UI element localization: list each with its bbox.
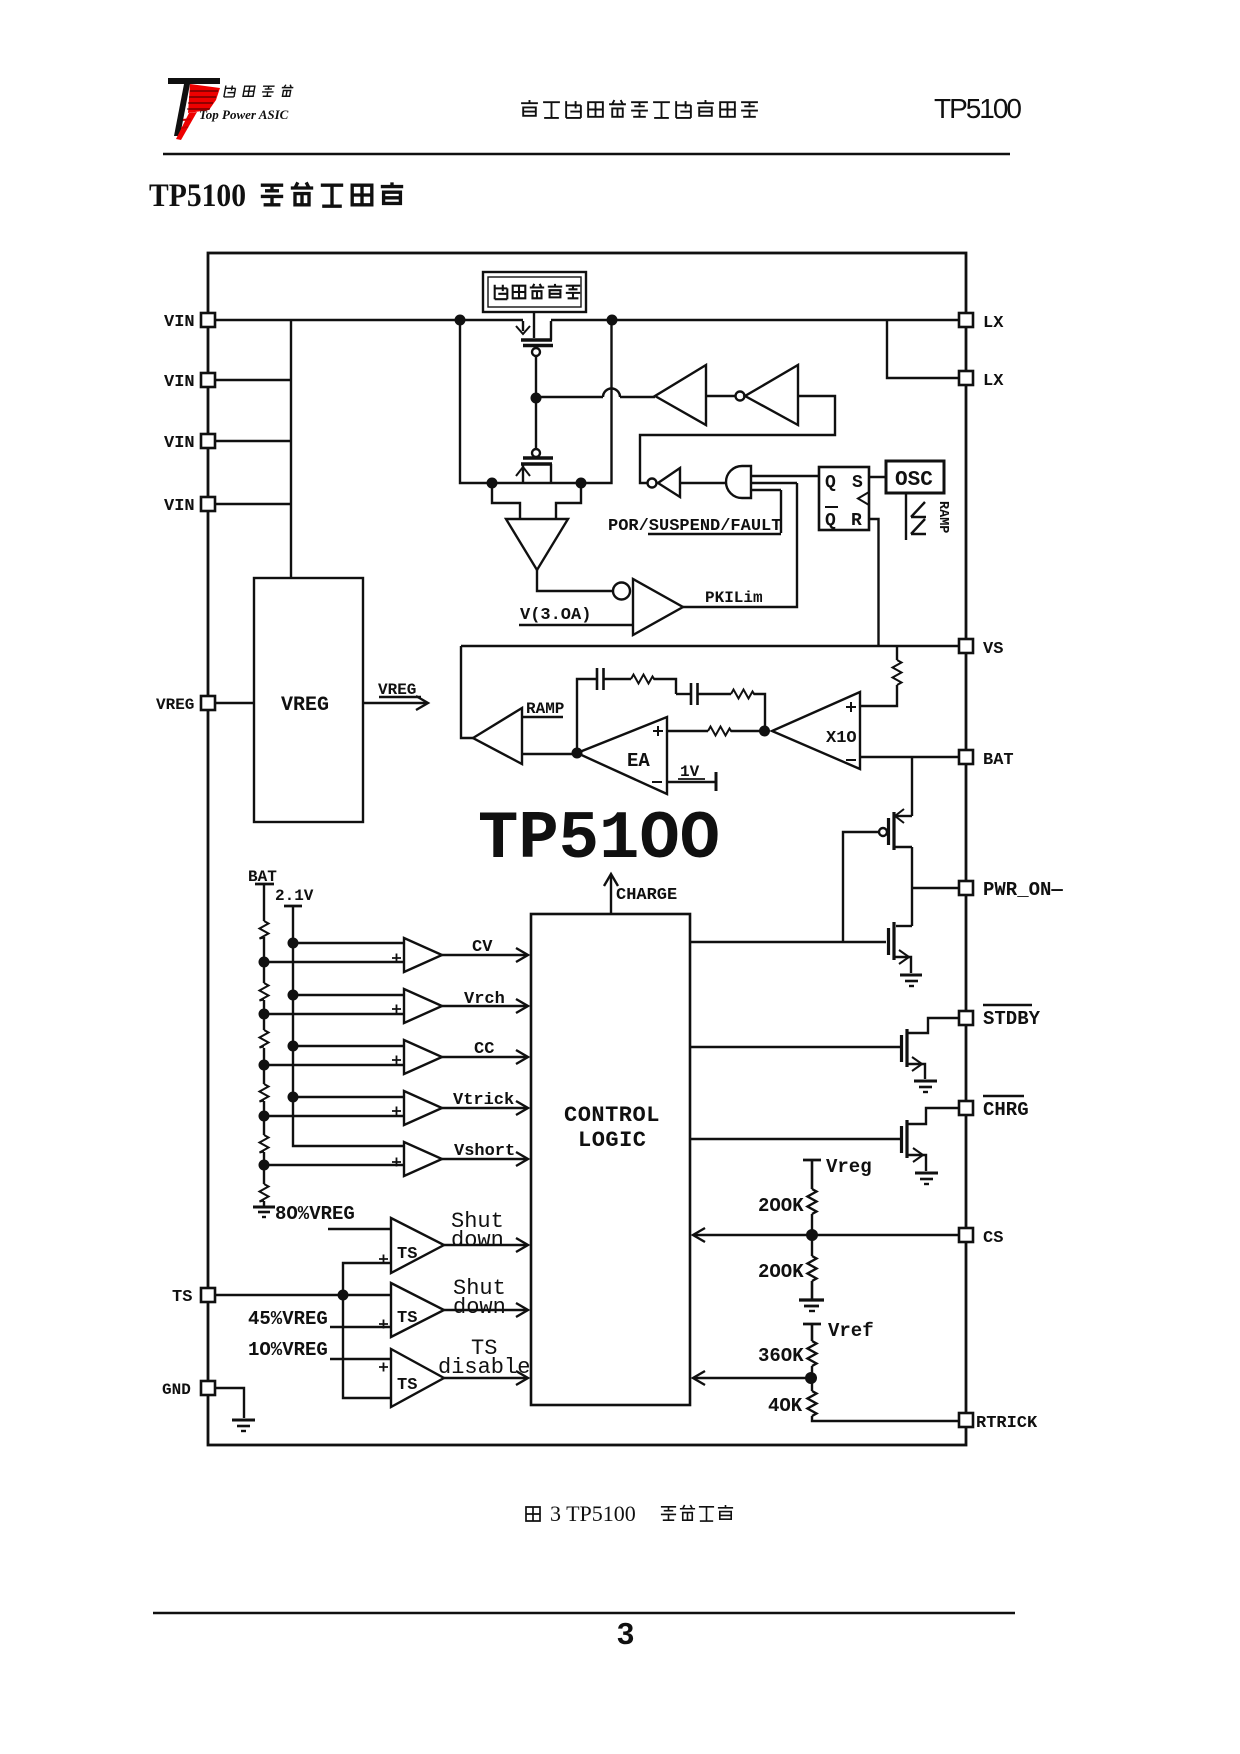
header company name 南京拓品微电子有限公司 bbox=[521, 100, 758, 118]
wire R12 to ground bbox=[811, 1281, 814, 1299]
wire node G to buffer chain (hop over vertical) bbox=[541, 389, 655, 398]
transistor Q5 NMOS STDBY driver bbox=[902, 1029, 926, 1079]
wire C1 to R1 bbox=[604, 678, 631, 680]
resistor R14 40K bbox=[808, 1391, 817, 1416]
wire GND pin to ground bbox=[215, 1388, 244, 1418]
svg-text:2OOK: 2OOK bbox=[758, 1195, 804, 1217]
svg-text:Vtrick: Vtrick bbox=[453, 1091, 514, 1110]
resistor ladder R10 bbox=[260, 1184, 269, 1202]
wire Vref node to control logic arrow bbox=[693, 1371, 811, 1385]
svg-text:RTRICK: RTRICK bbox=[976, 1414, 1038, 1433]
pin STDBY (active low) bbox=[959, 1005, 1041, 1030]
buffer B2 with input bubble bbox=[706, 365, 798, 425]
wire VIN4 to bus bbox=[215, 503, 291, 505]
block VREG regulator bbox=[254, 578, 363, 822]
wire latch R input from ramp comparator bbox=[869, 519, 879, 645]
header rule bbox=[163, 153, 1010, 156]
wire BAT rail down bbox=[911, 757, 913, 816]
svg-text:disable: disable bbox=[438, 1355, 530, 1380]
net label Shut down 2 bbox=[453, 1276, 506, 1320]
block CONTROL LOGIC bbox=[531, 914, 690, 1405]
comparator U11 Vrch bbox=[392, 989, 442, 1023]
wire latch S input from OSC bbox=[869, 476, 886, 478]
wire VREG pin to regulator bbox=[215, 702, 254, 704]
svg-text:STDBY: STDBY bbox=[983, 1008, 1041, 1030]
node junction y483 left bbox=[487, 478, 498, 489]
value label V(3.0A) with reference wire bbox=[519, 606, 633, 625]
resistor R12 200K lower bbox=[808, 1256, 817, 1281]
logo text 拓微集成 bbox=[224, 85, 294, 97]
pin CS bbox=[959, 1228, 1003, 1248]
svg-text:R: R bbox=[851, 511, 862, 531]
comparator U14 Vshort bbox=[392, 1142, 442, 1176]
wire VIN3 to bus bbox=[215, 440, 291, 442]
wire TS2 output arrow bbox=[444, 1303, 528, 1317]
svg-text:VIN: VIN bbox=[164, 313, 195, 332]
ground Q4 source bbox=[900, 975, 922, 986]
svg-text:CONTROL: CONTROL bbox=[564, 1103, 660, 1128]
svg-text:2.1V: 2.1V bbox=[275, 887, 314, 905]
wire down to ramp comparator output bbox=[461, 646, 473, 738]
wire VIN rail right to LX bbox=[551, 319, 959, 321]
wire LX2 to rail bbox=[887, 321, 959, 378]
wire PKILim output to AND gate bbox=[683, 483, 797, 607]
gate U6 inverter bbox=[640, 396, 835, 497]
svg-text:VREG: VREG bbox=[281, 694, 329, 717]
resistor ladder R7 bbox=[260, 1030, 269, 1048]
symbol ramp waveform bbox=[911, 502, 926, 534]
power rail Vreg tick bbox=[803, 1159, 821, 1162]
ground Q6 source bbox=[915, 1173, 938, 1184]
wire TS pin net bbox=[215, 1294, 391, 1296]
svg-text:Vreg: Vreg bbox=[826, 1156, 872, 1178]
wire Q1 gate to node G bbox=[535, 356, 537, 394]
pin BAT bbox=[959, 750, 1014, 770]
svg-text:45%VREG: 45%VREG bbox=[248, 1308, 328, 1330]
resistor ladder R5 bbox=[260, 921, 269, 939]
pin VREG bbox=[156, 696, 215, 714]
svg-text:CHARGE: CHARGE bbox=[616, 886, 677, 905]
block OSC oscillator bbox=[886, 461, 944, 493]
pin VS bbox=[959, 639, 1003, 659]
pin RTRICK bbox=[959, 1413, 1038, 1433]
power rail 2.1V tick bbox=[284, 905, 302, 908]
wire staircase right to sense triangle bbox=[556, 483, 581, 519]
wire Q6 gate from control logic bbox=[690, 1138, 901, 1140]
wire Vtrick output arrow bbox=[442, 1101, 528, 1115]
wire CC output arrow bbox=[442, 1050, 528, 1064]
svg-text:CV: CV bbox=[472, 938, 493, 957]
svg-text:LX: LX bbox=[983, 314, 1004, 333]
svg-text:Q: Q bbox=[825, 511, 836, 531]
wire R3 to node bbox=[731, 730, 760, 732]
node G junction bbox=[531, 393, 542, 404]
wire Vshort output arrow bbox=[442, 1152, 528, 1166]
svg-text:CS: CS bbox=[983, 1229, 1003, 1248]
transistor Q2 NMOS (reverse device) bbox=[516, 449, 553, 483]
footer rule bbox=[153, 1612, 1015, 1615]
resistor R3 (EA input) bbox=[708, 727, 732, 736]
wire CS pin to control logic arrow bbox=[693, 1228, 959, 1242]
gate U5 AND (mirrored) bbox=[680, 466, 819, 498]
svg-text:GND: GND bbox=[162, 1381, 191, 1399]
wire OSC ramp output bbox=[905, 493, 907, 540]
svg-text:down: down bbox=[453, 1295, 506, 1320]
svg-text:Q: Q bbox=[825, 473, 836, 493]
wire Vrch output arrow bbox=[442, 999, 528, 1013]
pin VIN 3 bbox=[164, 434, 215, 453]
wire Vref node to R14 bbox=[811, 1378, 813, 1391]
svg-text:3: 3 bbox=[617, 1616, 634, 1651]
wire Vref divider top bbox=[811, 1324, 814, 1341]
svg-text:TP5100: TP5100 bbox=[149, 178, 246, 214]
svg-text:LX: LX bbox=[983, 372, 1004, 391]
caption 图 3 TP5100 功能框图 bbox=[526, 1501, 733, 1526]
svg-text:VREG: VREG bbox=[378, 681, 416, 699]
svg-text:1O%VREG: 1O%VREG bbox=[248, 1339, 328, 1361]
net label RAMP input bbox=[522, 700, 564, 718]
wire branch2 start bbox=[676, 693, 690, 695]
svg-text:VIN: VIN bbox=[164, 497, 195, 516]
svg-text:S: S bbox=[852, 473, 863, 493]
svg-text:36OK: 36OK bbox=[758, 1345, 804, 1367]
svg-text:CC: CC bbox=[474, 1040, 494, 1059]
wire TS down to comparator 3 bbox=[343, 1295, 391, 1398]
svg-text:2OOK: 2OOK bbox=[758, 1261, 804, 1283]
op-amp U8 EA error amplifier bbox=[577, 717, 667, 794]
wire Q3 gate riser bbox=[843, 832, 879, 941]
resistor R11 200K upper bbox=[808, 1189, 817, 1214]
svg-text:8O%VREG: 8O%VREG bbox=[275, 1203, 355, 1225]
comparator U15 TS shutdown 1 bbox=[379, 1218, 444, 1273]
wire reference rail x293 bbox=[293, 906, 404, 1146]
wire CHRG pin to Q6 drain bbox=[908, 1108, 959, 1124]
wire CS node to R12 bbox=[811, 1235, 813, 1256]
pin VIN 4 bbox=[164, 497, 215, 516]
buffer B1 gate driver bbox=[655, 365, 706, 425]
wire box to pass transistor gate bbox=[533, 312, 535, 338]
wire triangle to PKILim comparator bbox=[537, 570, 612, 591]
pin GND bbox=[162, 1381, 215, 1399]
wire TS1 output arrow bbox=[444, 1238, 528, 1252]
net label TS disable bbox=[438, 1336, 530, 1380]
node reference junctions x293 bbox=[288, 938, 299, 1103]
svg-text:VIN: VIN bbox=[164, 434, 195, 453]
svg-text:TS: TS bbox=[397, 1309, 417, 1328]
wire ladder rail segments x264 bbox=[263, 884, 265, 1206]
svg-text:down: down bbox=[451, 1228, 504, 1253]
svg-text:PWR_ON—: PWR_ON— bbox=[983, 879, 1063, 901]
wire R13 to Vref node bbox=[811, 1366, 813, 1378]
net label Shut down 1 bbox=[451, 1209, 504, 1253]
wire C2 to R2 bbox=[698, 693, 731, 695]
wire staircase left to sense triangle bbox=[492, 483, 520, 519]
wire TS up to comparator 1 bbox=[343, 1263, 391, 1295]
node ladder junctions x264 bbox=[259, 957, 270, 1171]
comparator U16 TS shutdown 2 bbox=[379, 1283, 444, 1337]
resistor R13 360K bbox=[808, 1341, 817, 1366]
pin CHRG (active low) bbox=[959, 1096, 1029, 1121]
wire BAT to X10- input bbox=[860, 756, 959, 758]
wire feedback branch 1 riser bbox=[577, 679, 596, 748]
node junction VIN rail A bbox=[455, 315, 466, 326]
comparator U12 CC bbox=[392, 1040, 442, 1074]
pin VIN 2 bbox=[164, 373, 215, 392]
node EA output junction bbox=[572, 748, 583, 759]
svg-text:Vrch: Vrch bbox=[464, 990, 505, 1009]
power rail BAT tick bbox=[255, 883, 274, 886]
wire VREG output arrow bbox=[363, 696, 428, 710]
resistor R4 (VS sense) bbox=[860, 646, 902, 706]
chip outer border bbox=[208, 253, 966, 1445]
resistor ladder R9 bbox=[260, 1135, 269, 1153]
wire Q5 gate from control logic bbox=[690, 1046, 901, 1048]
svg-text:4OK: 4OK bbox=[768, 1395, 803, 1417]
svg-text:V(3.OA): V(3.OA) bbox=[520, 606, 591, 625]
wire CV output arrow bbox=[442, 948, 528, 962]
resistor ladder R8 bbox=[260, 1084, 269, 1102]
svg-text:TS: TS bbox=[397, 1376, 417, 1395]
node Vref junction bbox=[805, 1372, 817, 1384]
svg-text:TP5100: TP5100 bbox=[934, 93, 1022, 124]
svg-text:TP51OO: TP51OO bbox=[478, 801, 720, 878]
svg-text:Top Power ASIC: Top Power ASIC bbox=[199, 107, 289, 122]
node junction y483 right bbox=[576, 478, 587, 489]
transistor Q1 PMOS pass (anti-backflow) bbox=[516, 321, 553, 356]
wire VIN rail left bbox=[215, 319, 523, 321]
node TS junction bbox=[338, 1290, 349, 1301]
svg-text:VS: VS bbox=[983, 640, 1003, 659]
resistor ladder R6 bbox=[260, 983, 269, 1001]
wire R2 down to X10 output node bbox=[754, 694, 765, 727]
ground GND pin bbox=[232, 1420, 255, 1431]
svg-text:RAMP: RAMP bbox=[526, 700, 564, 718]
wire 45%VREG stub bbox=[330, 1326, 391, 1328]
ground Vreg divider bbox=[799, 1300, 824, 1311]
comparator U4 PKILim bbox=[613, 579, 683, 635]
pin TS bbox=[172, 1288, 215, 1307]
wire R11 to CS node bbox=[811, 1214, 813, 1235]
wire EA- reference 1V bbox=[667, 772, 716, 791]
wire node G down to Q2 gate bbox=[535, 403, 537, 449]
wire comparator inputs from rails bbox=[264, 943, 404, 1165]
capacitor C1 bbox=[597, 668, 604, 690]
comparator U17 TS disable bbox=[379, 1349, 444, 1407]
node junction VIN rail B bbox=[607, 315, 618, 326]
wire U3 input from EA node bbox=[522, 753, 577, 755]
svg-text:Vref: Vref bbox=[828, 1320, 874, 1342]
ground Q5 source bbox=[914, 1081, 937, 1092]
latch U7 SR flip-flop bbox=[819, 467, 869, 531]
net label POR/SUSPEND/FAULT bbox=[608, 517, 781, 536]
resistor R1 (feedback) bbox=[631, 675, 655, 684]
ground ladder bottom bbox=[253, 1207, 275, 1217]
svg-text:RAMP: RAMP bbox=[935, 501, 950, 533]
wire STDBY pin to Q5 drain bbox=[908, 1018, 959, 1033]
pin VIN 1 bbox=[164, 313, 215, 332]
wire VS feedback rail y646 bbox=[461, 645, 959, 647]
svg-text:3 TP5100: 3 TP5100 bbox=[550, 1501, 636, 1526]
resistor R2 (feedback) bbox=[731, 690, 755, 699]
wire 10%VREG stub bbox=[330, 1358, 391, 1360]
svg-text:LOGIC: LOGIC bbox=[578, 1128, 647, 1153]
node CS junction bbox=[806, 1229, 818, 1241]
svg-text:VREG: VREG bbox=[156, 696, 194, 714]
pin LX 1 bbox=[959, 313, 1004, 333]
wire TS3 output arrow bbox=[444, 1371, 528, 1385]
comparator U13 Vtrick bbox=[392, 1091, 442, 1125]
op-amp U9 X10 current amplifier bbox=[772, 692, 860, 769]
wire PMOS drain to PWR_ON pin bbox=[912, 847, 959, 926]
transistor Q3 PMOS PWR_ON driver bbox=[879, 809, 912, 850]
wire EA+ input bbox=[667, 730, 708, 732]
wire 80%VREG stub to TS comparator 1 bbox=[328, 1228, 391, 1230]
logo Top Power ASIC bbox=[168, 78, 220, 140]
svg-text:OSC: OSC bbox=[895, 469, 933, 492]
transistor Q4 NMOS PWR_ON driver bbox=[889, 922, 913, 973]
wire inverter gates from control logic bbox=[690, 941, 886, 943]
pin PWR_ON- bbox=[959, 879, 1063, 901]
pin LX 2 bbox=[959, 371, 1004, 391]
wire CHARGE output arrow bbox=[604, 874, 618, 914]
svg-text:EA: EA bbox=[627, 750, 650, 772]
transistor Q6 NMOS CHRG driver bbox=[902, 1120, 927, 1171]
svg-text:BAT: BAT bbox=[983, 751, 1014, 770]
wire POR to AND gate bbox=[780, 490, 782, 533]
svg-text:VIN: VIN bbox=[164, 373, 195, 392]
svg-text:TS: TS bbox=[397, 1245, 417, 1264]
svg-text:PKILim: PKILim bbox=[705, 589, 763, 607]
node X10 output junction bbox=[759, 726, 770, 737]
block anti-backflow circuit 防倒灌电路 bbox=[483, 272, 586, 312]
wire VIN2 to bus bbox=[215, 379, 291, 381]
wire R1 to branch2 bbox=[654, 679, 676, 694]
capacitor C2 bbox=[691, 683, 698, 705]
svg-text:X1O: X1O bbox=[826, 729, 857, 748]
svg-text:Vshort: Vshort bbox=[454, 1142, 515, 1161]
svg-text:TS: TS bbox=[172, 1288, 192, 1307]
comparator U3 ramp PWM bbox=[473, 708, 522, 764]
power rail Vref tick bbox=[803, 1323, 821, 1326]
wire source bus y483 bbox=[460, 321, 612, 483]
comparator U10 CV bbox=[392, 938, 442, 972]
value label 1V bbox=[678, 763, 705, 781]
svg-text:CHRG: CHRG bbox=[983, 1099, 1029, 1121]
wire R14 to RTRICK pin bbox=[812, 1416, 959, 1421]
current sense buffer (down triangle) bbox=[506, 519, 568, 570]
wire VIN bus vertical bbox=[290, 321, 292, 578]
wire Vreg divider top bbox=[811, 1160, 814, 1189]
